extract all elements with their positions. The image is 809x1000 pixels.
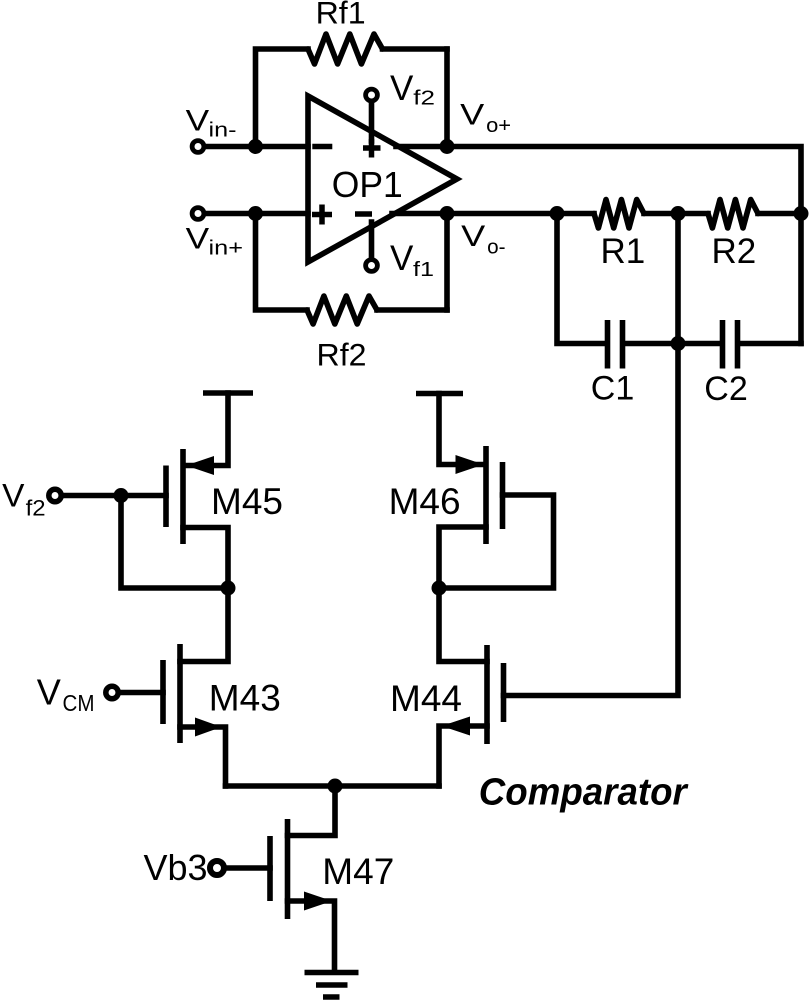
resistor Rf2 <box>307 296 377 324</box>
wire C1 right <box>626 341 679 347</box>
svg-text:f1: f1 <box>413 259 434 281</box>
wire Vf2 stub <box>369 101 375 141</box>
node tail <box>328 779 343 794</box>
resistor Rf1 <box>308 34 383 64</box>
svg-text:R2: R2 <box>712 232 757 271</box>
node M45 drain <box>221 581 236 596</box>
svg-text:o-: o- <box>487 236 505 258</box>
terminal Vf2 top <box>366 89 378 101</box>
svg-text:V: V <box>186 222 210 255</box>
transistor M46 channel plate <box>483 446 489 544</box>
wire Rf1 right leg <box>444 49 450 147</box>
svg-text:M45: M45 <box>211 481 283 522</box>
wire R1-R2 <box>644 211 708 217</box>
svg-text:Rf2: Rf2 <box>317 337 367 373</box>
label Comparator <box>479 772 689 814</box>
wire M44 drain riser <box>439 588 487 662</box>
wire M46 source stem <box>439 394 483 465</box>
label C2 <box>704 370 747 408</box>
wire tail <box>226 783 440 789</box>
ground <box>305 973 359 998</box>
transistor M46 gate plate <box>500 462 506 529</box>
svg-text:V: V <box>390 239 414 278</box>
wire M43 gate <box>119 690 164 696</box>
wire R2 right <box>758 211 801 217</box>
svg-text:V: V <box>390 69 414 108</box>
svg-text:C2: C2 <box>704 370 747 408</box>
svg-text:OP1: OP1 <box>332 164 403 205</box>
terminal VCM <box>106 686 118 698</box>
wire Rf1 right <box>383 46 448 52</box>
wire mid vertical to M44 gate <box>504 214 679 696</box>
label Rf2 <box>317 337 367 373</box>
label Vo- <box>461 220 506 258</box>
svg-text:Rf1: Rf1 <box>316 0 366 31</box>
wire M43 source <box>180 727 226 786</box>
svg-text:M47: M47 <box>322 851 394 892</box>
wire Rf2 right leg <box>444 214 450 311</box>
svg-text:CM: CM <box>63 690 95 716</box>
label VCM <box>37 672 95 716</box>
arrow M45 source <box>186 456 214 475</box>
svg-text:M43: M43 <box>209 678 281 719</box>
label Vin- <box>186 105 237 142</box>
label Rf1 <box>316 0 366 31</box>
node C row mid <box>671 336 686 351</box>
transistor M43 gate plate <box>160 660 166 724</box>
svg-text:in-: in- <box>209 120 237 142</box>
wire M45 diode connection <box>121 496 228 589</box>
wire Rf1 left leg <box>256 49 309 147</box>
wire M47 drain riser <box>288 786 336 836</box>
label R2 <box>712 232 757 271</box>
capacitor C2 <box>723 320 738 369</box>
label M44 <box>390 678 462 719</box>
node input+ <box>248 206 263 221</box>
terminal Vb3 <box>210 861 224 875</box>
wire C2 left <box>678 341 720 347</box>
terminal Vin- <box>192 141 204 153</box>
svg-text:M46: M46 <box>389 481 461 522</box>
transistor M44 gate plate <box>501 663 507 722</box>
wire input+ <box>205 211 309 217</box>
svg-text:o+: o+ <box>486 115 511 137</box>
svg-text:C1: C1 <box>591 370 634 408</box>
label R1 <box>601 232 646 271</box>
wire Rf2 left leg <box>256 214 308 311</box>
node right <box>794 206 809 221</box>
svg-text:Vb3: Vb3 <box>144 847 208 888</box>
minus sign output bottom <box>355 211 372 217</box>
wire M47 gate <box>225 865 271 871</box>
supply bar M46 <box>416 391 463 397</box>
minus sign inverting input <box>312 144 332 150</box>
wire C1 left drop <box>557 214 605 344</box>
wire C2 right <box>741 341 802 347</box>
wire M45 source stem <box>186 393 228 466</box>
label Vo+ <box>460 99 511 137</box>
svg-text:V: V <box>186 105 210 138</box>
wire Vo- output <box>392 211 594 217</box>
transistor M43 channel plate <box>177 644 183 743</box>
wire M47 source <box>288 901 335 971</box>
wire Rf2 right <box>377 307 447 313</box>
plus sign noninverting input <box>312 205 332 225</box>
label M47 <box>322 851 394 892</box>
node Vo+ <box>440 139 455 154</box>
label Vf2 left <box>2 478 45 521</box>
transistor M47 gate plate <box>267 836 273 901</box>
label Vf1 <box>390 239 434 281</box>
node M46 drain <box>432 581 447 596</box>
wire M46 drain <box>439 527 486 588</box>
label M45 <box>211 481 283 522</box>
terminal Vf2 left <box>49 489 61 501</box>
arrow M46 source <box>456 455 484 474</box>
svg-text:M44: M44 <box>390 678 462 719</box>
resistor R2 <box>708 200 758 229</box>
label Vb3 <box>144 847 208 888</box>
wire input- <box>205 144 309 150</box>
node Vo- <box>440 206 455 221</box>
transistor M47 channel plate <box>285 819 291 919</box>
supply bar M45 <box>203 390 253 396</box>
arrow M47 source <box>304 892 332 911</box>
svg-text:in+: in+ <box>209 238 244 260</box>
capacitor C1 <box>608 320 623 369</box>
wire M46 gate loop <box>439 495 554 588</box>
svg-text:V: V <box>461 220 485 253</box>
svg-text:V: V <box>37 672 61 713</box>
arrow M44 source <box>442 717 471 736</box>
svg-text:R1: R1 <box>601 232 646 271</box>
svg-text:V: V <box>2 478 25 514</box>
wire Vf1 stub <box>369 222 375 259</box>
terminal Vin+ <box>192 208 204 220</box>
wire M45 gate <box>62 493 167 499</box>
wire M43 drain riser <box>180 588 228 662</box>
svg-text:f2: f2 <box>26 496 46 521</box>
label Vf2 top <box>390 69 435 110</box>
label Vin+ <box>186 222 243 259</box>
svg-text:Comparator: Comparator <box>479 772 689 814</box>
node input- <box>248 139 263 154</box>
wire M44 source <box>439 726 487 786</box>
label M43 <box>209 678 281 719</box>
op-amp OP1 <box>308 96 457 262</box>
transistor M45 gate plate <box>163 466 169 528</box>
wire M45 drain <box>183 528 228 589</box>
label OP1 <box>332 164 403 205</box>
terminal Vf1 <box>366 260 378 272</box>
resistor R1 <box>594 200 644 229</box>
label C1 <box>591 370 634 408</box>
transistor M44 channel plate <box>484 645 490 744</box>
label M46 <box>389 481 461 522</box>
node M45 gate <box>114 488 129 503</box>
svg-text:V: V <box>460 99 484 132</box>
wire right drop <box>798 214 804 344</box>
node R1 left <box>550 206 565 221</box>
node mid <box>671 206 686 221</box>
svg-text:f2: f2 <box>413 88 435 110</box>
wire Vo+ <box>396 147 801 214</box>
transistor M45 channel plate <box>180 449 186 544</box>
arrow M43 source <box>195 718 222 737</box>
plus sign output top <box>363 139 381 158</box>
